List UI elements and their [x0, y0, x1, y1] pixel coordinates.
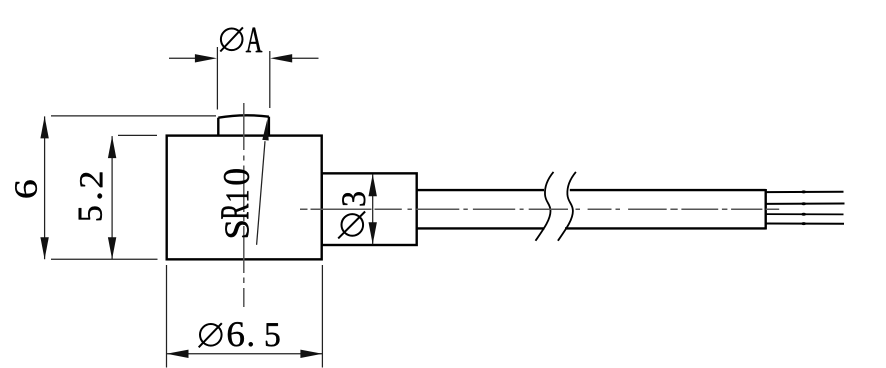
vertical centerline	[243, 103, 245, 307]
leader line SR10	[257, 119, 269, 245]
dimension Ø3 dimension line + arrows	[369, 174, 377, 244]
wire 2	[766, 202, 845, 205]
dimension Ø6.5 extension line left	[166, 265, 168, 368]
dimension 6 extension line top	[51, 115, 216, 117]
cable break squiggle right	[558, 172, 576, 241]
dimension 6 dimension line + arrows	[40, 116, 48, 259]
label SR10 text	[221, 169, 249, 237]
body outline (sensor housing)	[167, 136, 322, 260]
dimension ØA extension line left	[216, 47, 218, 110]
dimension Ø6.5 text	[199, 322, 280, 347]
cable break squiggle left	[536, 172, 554, 241]
wire 1	[766, 190, 844, 193]
wire 3	[766, 213, 844, 216]
cable outline	[417, 189, 766, 230]
dimension Ø6.5 extension line right	[321, 265, 323, 368]
dimension Ø3 text	[338, 192, 365, 238]
button (load cap) on top of body	[218, 115, 269, 135]
shared bottom extension line for 6 / 5.2	[51, 258, 158, 260]
cable fitting (small rectangle)	[322, 173, 417, 245]
dimension 5.2 text	[79, 173, 103, 221]
wire 4	[766, 222, 844, 225]
dimension ØA dimension line + arrows	[169, 54, 319, 62]
dimension 6 text	[15, 180, 37, 197]
dimension 5.2 extension line top	[118, 134, 157, 136]
dimension ØA extension line right	[269, 51, 271, 108]
dimension ØA text	[220, 27, 262, 52]
dimension 5.2 dimension line + arrows	[108, 136, 116, 259]
dimension Ø6.5 dimension line + arrows	[167, 350, 323, 358]
horizontal centerline	[300, 208, 779, 210]
